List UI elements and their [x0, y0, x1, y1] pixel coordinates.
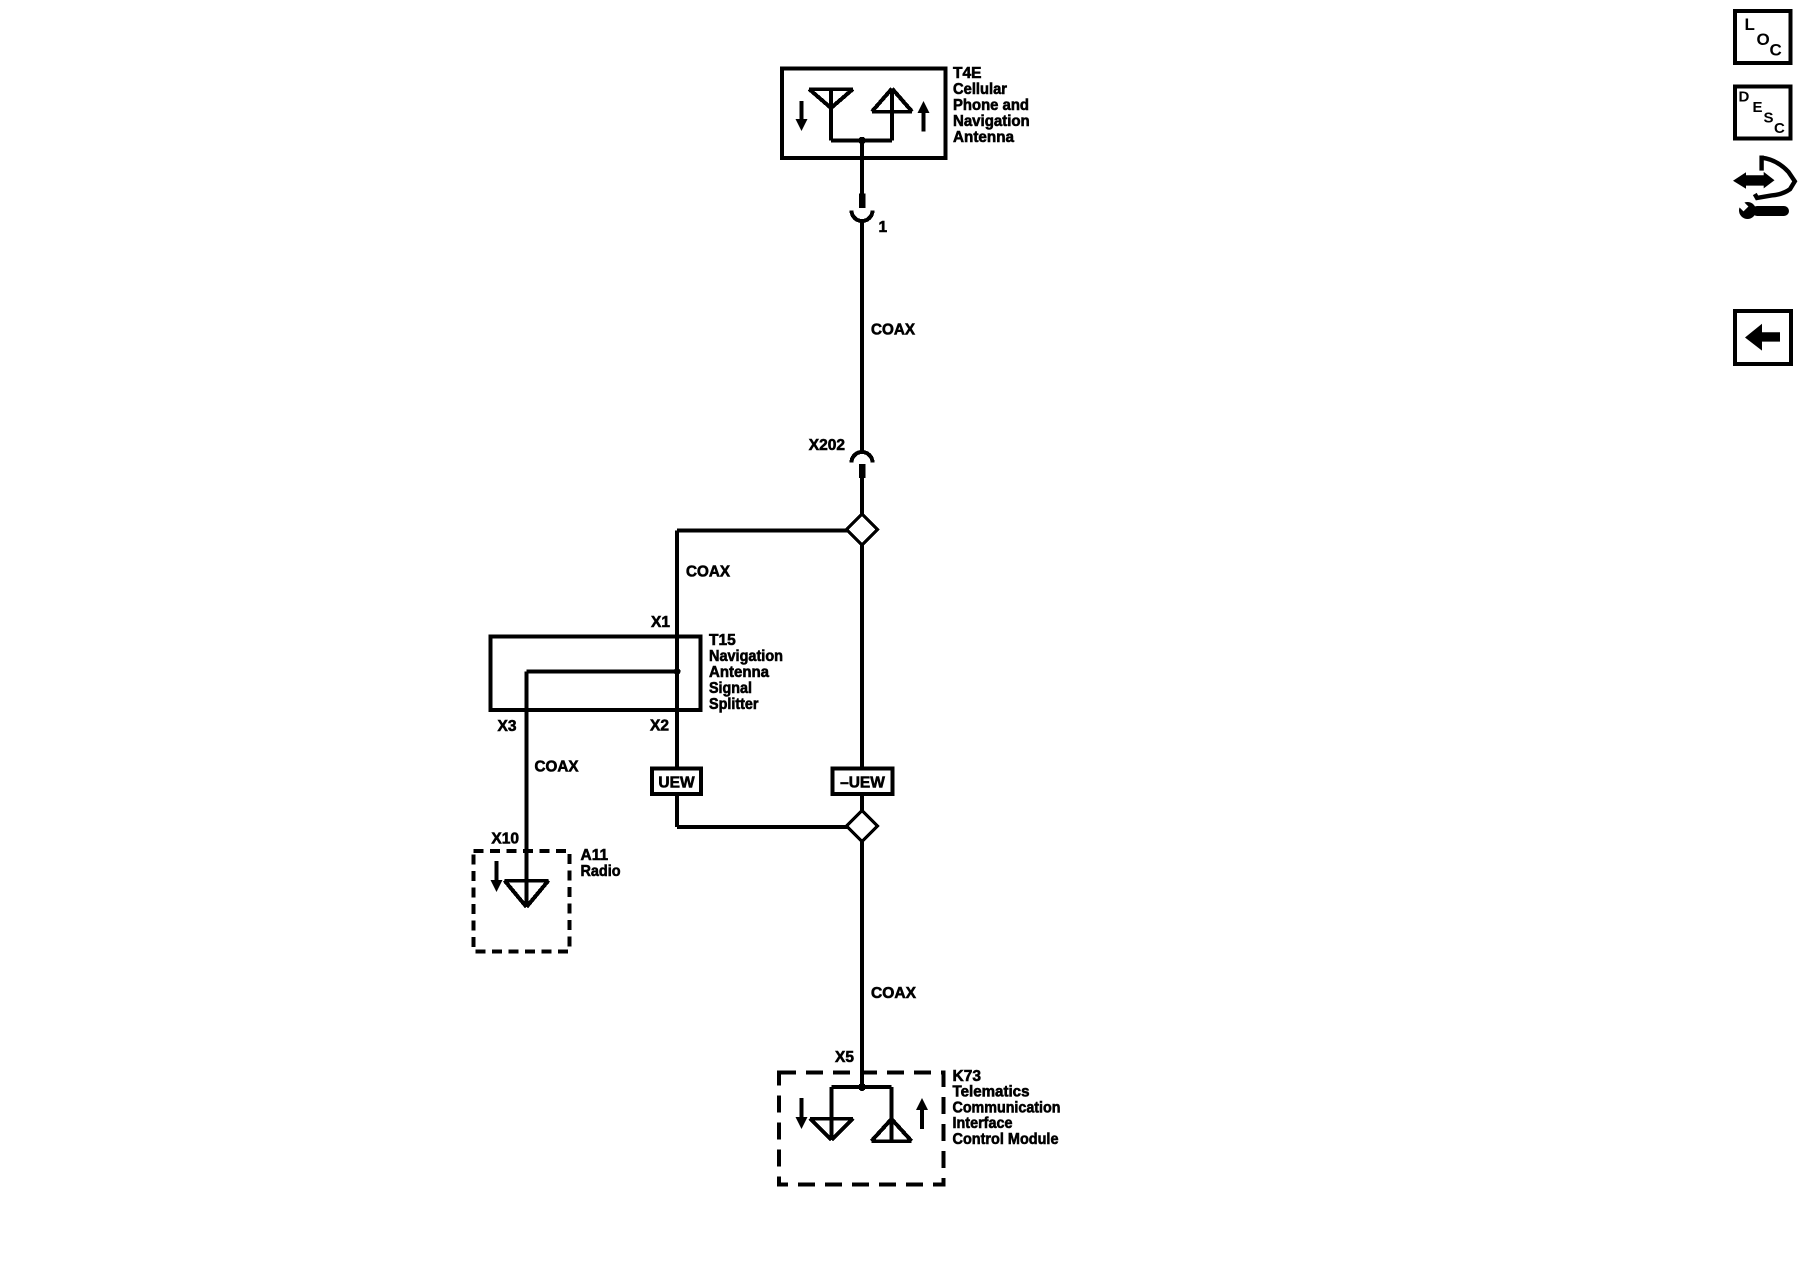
svg-text:E: E [1753, 99, 1763, 116]
connector box UEW [652, 769, 701, 795]
svg-text:Radio: Radio [581, 863, 621, 880]
dashed component box K73 [779, 1073, 944, 1185]
svg-text:C: C [1770, 41, 1782, 60]
svg-text:T4E: T4E [953, 65, 981, 82]
connector box -UEW [833, 769, 893, 795]
splice diamond S1 [847, 514, 878, 545]
svg-text:Interface: Interface [953, 1115, 1013, 1132]
svg-text:Navigation: Navigation [953, 113, 1030, 130]
svg-text:X10: X10 [491, 831, 519, 848]
junction line in K73 [832, 1085, 892, 1089]
svg-text:1: 1 [879, 219, 888, 236]
wire X3 branch down to A11 antenna [525, 672, 529, 908]
junction line in T4E [831, 139, 892, 143]
svg-text:Control Module: Control Module [953, 1131, 1059, 1148]
svg-text:COAX: COAX [871, 322, 916, 339]
antenna (left) in K73 [810, 1087, 853, 1140]
svg-text:T15: T15 [709, 632, 736, 649]
svg-text:X1: X1 [651, 614, 670, 631]
svg-text:L: L [1745, 15, 1755, 34]
antenna (right) in K73 [872, 1087, 912, 1141]
junction dot in K73 [858, 1083, 866, 1091]
svg-text:C: C [1774, 120, 1785, 137]
icon connector-view arrows and wrench [1733, 156, 1795, 220]
wire splice to left branch corner [677, 529, 847, 533]
wire X1 through T15 redrawn [675, 637, 679, 767]
svg-text:D: D [1739, 89, 1750, 106]
up arrow in T4E [918, 101, 930, 132]
wire corner to lower splice [677, 825, 847, 829]
svg-text:Antenna: Antenna [953, 129, 1014, 146]
svg-text:Splitter: Splitter [709, 696, 759, 713]
svg-text:Navigation: Navigation [709, 648, 783, 665]
internal splitter line horizontal [527, 670, 678, 674]
splice diamond S2 [847, 811, 878, 842]
connector X202 pin stub [859, 464, 866, 478]
svg-text:COAX: COAX [871, 985, 917, 1002]
svg-text:Phone and: Phone and [953, 97, 1029, 114]
component box T15 splitter [491, 637, 701, 711]
svg-text:UEW: UEW [658, 775, 695, 792]
down arrow in T4E [796, 101, 808, 131]
junction dot in T4E [858, 137, 866, 145]
junction dot in T15 [674, 668, 681, 675]
svg-text:O: O [1757, 30, 1770, 49]
svg-text:COAX: COAX [535, 759, 580, 776]
wire left branch down to T15 X1 [675, 531, 679, 767]
down arrow in A11 [491, 861, 503, 892]
svg-text:K73: K73 [953, 1068, 982, 1085]
wire COAX upper [860, 220, 864, 451]
icon box DESC [1735, 87, 1791, 139]
svg-text:X3: X3 [498, 718, 517, 735]
pin 1 male stub [859, 194, 866, 209]
wire -UEW to lower splice [860, 796, 864, 811]
svg-text:S: S [1764, 110, 1774, 127]
antenna in A11 [505, 881, 549, 908]
antenna (right, transmit) in T4E [872, 89, 912, 141]
wire splice down right branch [860, 545, 864, 767]
svg-text:Cellular: Cellular [953, 81, 1007, 98]
connector X202 socket [852, 452, 873, 463]
svg-text:Antenna: Antenna [709, 664, 769, 681]
up arrow in K73 [916, 1098, 928, 1129]
icon box back arrow [1735, 311, 1791, 364]
wire UEW down to corner [675, 794, 679, 827]
down arrow in K73 [796, 1098, 808, 1129]
svg-text:X2: X2 [650, 718, 669, 735]
svg-text:X202: X202 [809, 437, 845, 454]
component box T4E [782, 69, 946, 159]
wire T4E to pin 1 [860, 141, 864, 195]
svg-text:Signal: Signal [709, 680, 752, 697]
svg-text:Telematics: Telematics [953, 1084, 1030, 1101]
svg-text:–UEW: –UEW [840, 775, 885, 792]
svg-text:Communication: Communication [953, 1100, 1061, 1117]
dashed component box A11 [474, 851, 570, 952]
wire lower splice down to K73 [860, 842, 864, 1088]
svg-text:A11: A11 [581, 847, 609, 864]
connector socket 1 [852, 211, 873, 222]
svg-text:X5: X5 [835, 1049, 854, 1066]
icon box LOC [1735, 11, 1791, 63]
antenna (left, receive) in T4E [809, 89, 853, 141]
svg-text:COAX: COAX [686, 564, 731, 581]
wire X202 to splice [860, 478, 864, 514]
